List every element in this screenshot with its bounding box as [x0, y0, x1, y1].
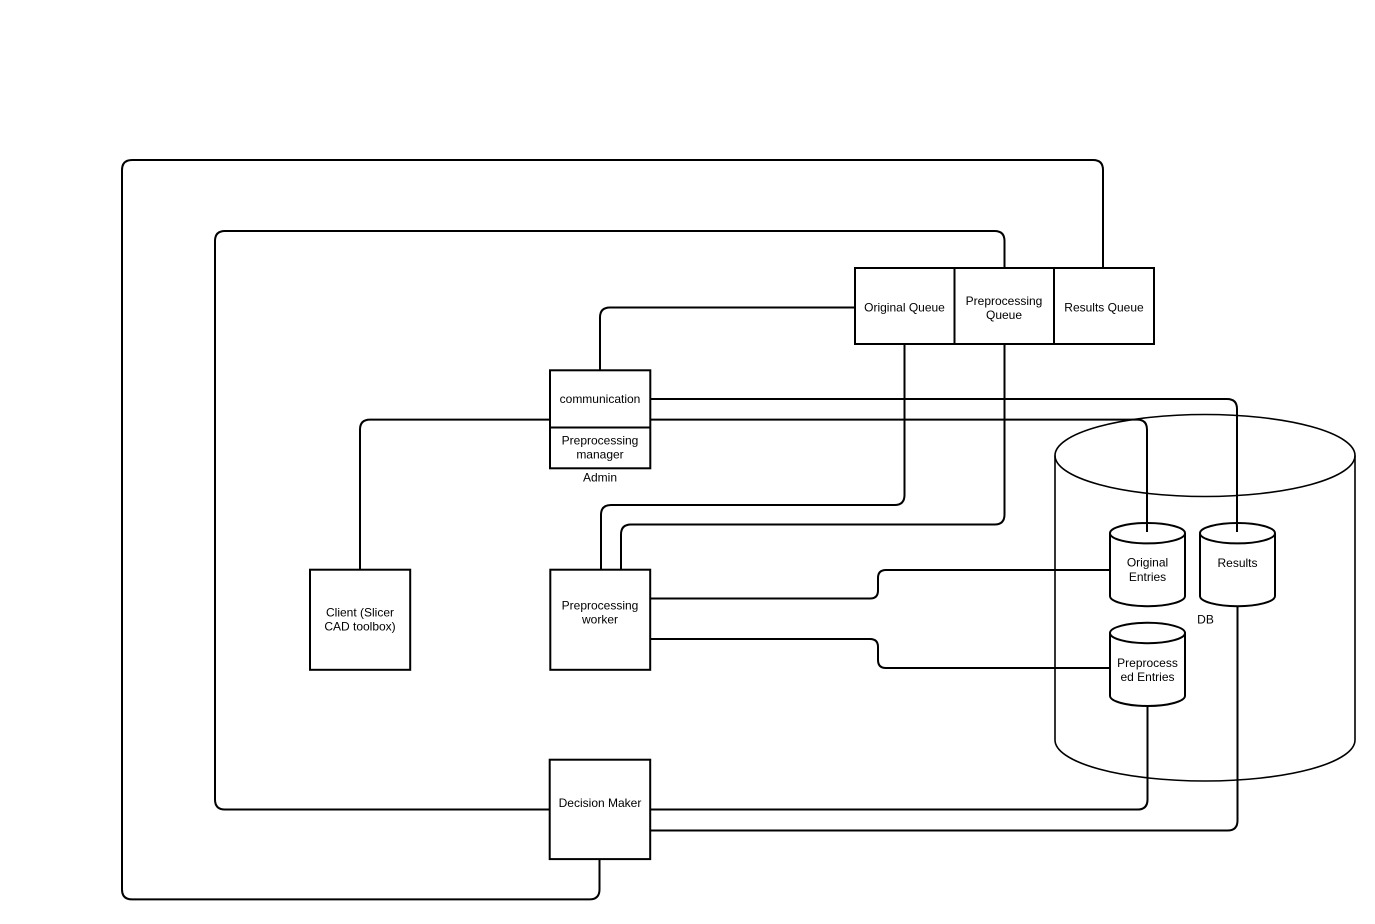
Client box [310, 570, 410, 670]
DB big cylinder [1055, 414, 1355, 781]
wire J: Results cylinder bottom -> Decision Maker right [650, 607, 1237, 831]
cylinder Results [1200, 523, 1275, 606]
cylinder Original Entries [1110, 523, 1185, 606]
svg-text:ed Entries: ed Entries [1120, 670, 1174, 684]
svg-text:communication: communication [560, 392, 641, 406]
svg-text:Preprocessing: Preprocessing [562, 434, 639, 448]
cylinder Preprocessed Entries [1110, 623, 1185, 706]
svg-text:Original Queue: Original Queue [864, 301, 945, 315]
svg-text:Queue: Queue [986, 308, 1022, 322]
wire D: Original Queue bottom -> Preprocessing worker top [601, 344, 905, 570]
wire F: Client top -> Admin left [360, 420, 550, 570]
svg-text:Decision Maker: Decision Maker [559, 796, 642, 810]
wire H: Admin right -> Original Entries cylinder top [650, 420, 1147, 532]
svg-text:manager: manager [576, 448, 623, 462]
svg-text:Entries: Entries [1129, 570, 1166, 584]
wire G: Admin right -> Results cylinder top [650, 399, 1237, 532]
connectors [122, 160, 1238, 899]
wire L: Preprocessing worker right -> Preprocessed Entries left [650, 639, 1110, 668]
svg-text:Results: Results [1217, 556, 1257, 570]
svg-text:Results Queue: Results Queue [1064, 301, 1144, 315]
Decision Maker box [550, 760, 651, 859]
svg-text:Admin: Admin [583, 471, 617, 485]
wire E: Preprocessing Queue bottom -> Preprocessing worker top [621, 344, 1005, 570]
Admin box (communication / Preprocessing manager) [550, 370, 650, 468]
svg-text:Client (Slicer: Client (Slicer [326, 606, 394, 620]
svg-text:CAD toolbox): CAD toolbox) [324, 620, 395, 634]
svg-text:Original: Original [1127, 556, 1168, 570]
svg-text:Preprocessing: Preprocessing [562, 599, 639, 613]
Preprocessing worker box [550, 570, 650, 670]
wire B: Decision Maker left -> around left -> Preprocessing Queue top [215, 231, 1005, 810]
svg-text:DB: DB [1197, 613, 1214, 627]
svg-text:Preprocessing: Preprocessing [966, 294, 1043, 308]
queue boxes row [855, 268, 1154, 344]
wire I: Preprocessed Entries bottom -> Decision Maker right [650, 706, 1147, 809]
wire K: Preprocessing worker right -> Original Entries left [650, 570, 1110, 599]
wire A: Decision Maker bottom -> around left/top -> Results Queue top [122, 160, 1103, 899]
svg-text:worker: worker [581, 613, 618, 627]
wire C: Admin top -> Original Queue left [600, 308, 855, 371]
svg-text:Preprocess: Preprocess [1117, 656, 1178, 670]
